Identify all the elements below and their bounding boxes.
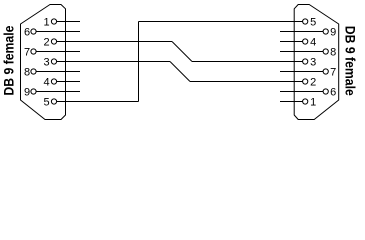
pin 7 contact circle (right): [323, 69, 328, 74]
pin 1 contact circle (left): [51, 19, 56, 24]
svg-text:1: 1: [43, 17, 49, 29]
pin 5 contact circle (right): [303, 19, 308, 24]
svg-text:8: 8: [24, 67, 30, 79]
svg-text:DB 9 female: DB 9 female: [342, 26, 358, 96]
svg-text:6: 6: [24, 27, 30, 39]
pin 2 contact circle (right): [303, 79, 308, 84]
pin 8 contact circle (left): [31, 69, 36, 74]
pin 4 contact circle (right): [303, 39, 308, 44]
wire W1c: GND net top horizontal run to right pin 5: [139, 21, 303, 23]
svg-text:9: 9: [330, 27, 336, 39]
wire W1b: GND net vertical riser: [138, 22, 140, 102]
pin 8 stub wire (left): [36, 71, 80, 73]
pin 6 contact circle (left): [31, 29, 36, 34]
connector J2 shell: right DB9 female: [294, 5, 339, 120]
wire W3a: left pin 3 horizontal run: [57, 61, 170, 63]
wire W2b: crossover diagonal down to right pin 3 row: [172, 42, 192, 62]
pin 9 stub wire (left): [36, 91, 80, 93]
pin 8 contact circle (right): [323, 49, 328, 54]
svg-text:4: 4: [310, 37, 316, 49]
pin 5 contact circle (left): [51, 99, 56, 104]
svg-text:4: 4: [43, 77, 49, 89]
pin 5 stub wire (right): [280, 21, 303, 23]
svg-text:2: 2: [310, 77, 316, 89]
pin 3 stub wire (right): [280, 61, 303, 63]
pin 2 stub wire (right): [280, 81, 303, 83]
svg-text:7: 7: [24, 47, 30, 59]
pin 4 stub wire (left): [57, 81, 80, 83]
svg-text:6: 6: [330, 87, 336, 99]
pin 1 stub wire (left): [57, 21, 80, 23]
wire W3c: horizontal run into right pin 2: [190, 81, 303, 83]
pin 9 contact circle (left): [31, 89, 36, 94]
pin 7 stub wire (left): [36, 51, 80, 53]
wire W1a: GND net, left pin 5 horizontal run to riser: [57, 101, 139, 103]
svg-text:2: 2: [43, 37, 49, 49]
svg-text:7: 7: [330, 67, 336, 79]
svg-text:9: 9: [24, 87, 30, 99]
pin 9 stub wire (right): [280, 31, 323, 33]
wire W3b: crossover diagonal down to right pin 2 row: [170, 62, 190, 82]
svg-text:5: 5: [43, 97, 49, 109]
pin 8 stub wire (right): [280, 51, 323, 53]
pin 4 stub wire (right): [280, 41, 303, 43]
pin 7 stub wire (right): [280, 71, 323, 73]
svg-text:1: 1: [310, 97, 316, 109]
pin 6 stub wire (left): [36, 31, 80, 33]
wire W2a: left pin 2 horizontal run: [57, 41, 172, 43]
pin 3 contact circle (left): [51, 59, 56, 64]
svg-text:DB 9 female: DB 9 female: [0, 25, 16, 95]
pin 6 contact circle (right): [323, 89, 328, 94]
connector J1 shell: left DB9 female: [21, 5, 66, 120]
pin 1 contact circle (right): [303, 99, 308, 104]
svg-text:3: 3: [43, 57, 49, 69]
svg-text:8: 8: [330, 47, 336, 59]
pin 6 stub wire (right): [280, 91, 323, 93]
svg-text:5: 5: [310, 17, 316, 29]
pin 1 stub wire (right): [280, 101, 303, 103]
wire W2c: horizontal run into right pin 3: [192, 61, 303, 63]
pin 3 contact circle (right): [303, 59, 308, 64]
svg-text:3: 3: [310, 57, 316, 69]
pin 5 stub wire (left): [57, 101, 80, 103]
pin 2 contact circle (left): [51, 39, 56, 44]
pin 9 contact circle (right): [323, 29, 328, 34]
pin 7 contact circle (left): [31, 49, 36, 54]
pin 3 stub wire (left): [57, 61, 80, 63]
pin 4 contact circle (left): [51, 79, 56, 84]
pin 2 stub wire (left): [57, 41, 80, 43]
